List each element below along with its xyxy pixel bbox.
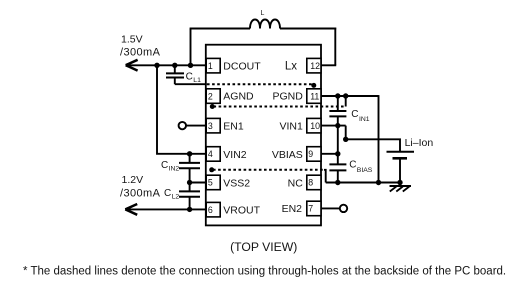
svg-text:BIAS: BIAS [357,167,373,174]
pin label EN2 [282,203,303,215]
svg-text:VIN2: VIN2 [223,149,247,161]
pin label NC [288,177,304,189]
inductor label L [261,10,265,17]
pin label Lx [285,60,297,72]
capacitor label CL2 [164,188,179,201]
node junction CL1 on 1.5V wire [172,63,177,68]
svg-text:PGND: PGND [272,90,303,102]
svg-text:C: C [349,160,356,171]
dashed line VSS2 (through-hole connection to power ground) [213,169,324,171]
svg-text:11: 11 [310,91,319,101]
pin label EN1 [223,120,244,132]
node junction caps on VSS2 wire [187,180,192,185]
capacitor CL2 [179,183,200,210]
svg-text:1.2V: 1.2V [122,174,144,186]
svg-text:NC: NC [288,177,304,189]
wire EN2 [321,207,340,209]
svg-text:10: 10 [310,121,320,131]
capacitor label CIN2 [161,160,179,173]
svg-text:Li–Ion: Li–Ion [405,137,434,149]
svg-text:L1: L1 [193,77,201,84]
pin label PGND [272,90,303,102]
svg-text:AGND: AGND [223,91,254,103]
svg-text:4: 4 [208,149,213,159]
svg-text:1.5V: 1.5V [121,34,143,46]
pin label DCOUT [223,61,261,73]
capacitor label CL1 [186,72,201,85]
node junction battery minus on ground rail [397,180,402,185]
svg-text:* The dashed lines denote the: * The dashed lines denote the connection… [23,265,506,277]
wire DCOUT output 1.5V [126,64,206,66]
wire top horizontal right segment [280,28,336,30]
svg-text:C: C [161,160,168,171]
pin 6 box [206,202,220,217]
label 1.5V [121,34,143,46]
pin 9 box [307,147,321,162]
ground symbol [390,183,412,192]
label 1.2V [122,174,144,186]
wire vertical from dashed end up to PGND wire [345,96,347,107]
pin label AGND [223,91,254,103]
pin label VIN2 [223,149,247,161]
wire battery feed to Li-Ion plus [346,139,400,151]
dashed line AGND top (through-hole connection to PGND) [207,83,313,85]
svg-text:12: 12 [310,61,320,71]
battery label Li-Ion [405,137,434,149]
pin 5 box [206,175,220,190]
node junction battery feed [343,137,348,142]
svg-text:DCOUT: DCOUT [223,61,261,73]
wire top loop right vertical (inductor to Lx) [334,28,336,66]
wire VROUT output 1.2V [125,208,206,210]
pin label VIN1 [279,120,303,132]
label (TOP VIEW) [230,240,297,254]
wire top horizontal left segment [190,28,250,30]
wire right rail PGND down to ground [378,95,380,182]
svg-text:2: 2 [208,91,213,101]
svg-text:/300mA: /300mA [120,46,161,58]
output arrow 1.2V [125,204,137,215]
node junction VBIAS wire [335,151,340,156]
node dot below pin 5 VSS2 [209,167,214,172]
capacitor CIN1 [329,96,346,126]
dashed line AGND bottom (through-hole connection to PGND net) [214,106,346,108]
pin 10 box [307,118,321,132]
pin 1 box [206,58,220,73]
capacitor label CBIAS [349,160,373,175]
pin 12 box [307,58,321,73]
svg-text:VROUT: VROUT [223,204,260,216]
svg-text:C: C [186,72,193,83]
pin label VBIAS [272,149,303,161]
wire VIN1 to VBIAS vertical [337,126,339,154]
wire VIN1 pin 10 [321,125,346,127]
wire VIN1 jog down to battery feed [345,126,347,140]
pin 2 box [206,89,220,104]
svg-text:VIN1: VIN1 [279,120,303,132]
svg-text:EN1: EN1 [223,120,244,132]
pin label VROUT [223,204,260,216]
wire left rail DCOUT to VIN2 [157,65,206,154]
wire CL1 ground to IC left edge [175,83,207,85]
svg-text:IN2: IN2 [169,165,180,172]
node junction CIN2 on VIN2 wire [187,151,192,156]
battery BT1 Li-Ion [387,152,415,183]
capacitor CL1 [166,65,184,84]
node junction CIN1 bottom on VIN1 wire [335,123,340,128]
capacitor CBIAS [329,154,346,183]
svg-text:Lx: Lx [285,60,297,72]
svg-text:3: 3 [208,121,213,131]
svg-text:1: 1 [208,61,213,71]
svg-text:8: 8 [308,178,313,188]
node junction dashed vertical [343,93,348,98]
node junction left rail on 1.5V wire [154,63,159,68]
node junction CBIAS on ground rail [335,180,340,185]
svg-text:C: C [164,188,171,199]
footnote about dashed lines [23,265,506,277]
svg-text:L: L [261,10,265,17]
wire ground rail bottom [326,182,400,184]
svg-text:L2: L2 [172,194,180,201]
wire elbow dashed end down to ground rail [324,170,326,183]
node junction inductor loop on 1.5V wire [188,63,193,68]
svg-text:7: 7 [308,204,313,214]
svg-text:C: C [351,109,358,120]
pin 8 box [307,175,321,190]
label /300mA (channel 1) [120,46,161,58]
terminal circle EN2 [340,205,347,212]
output arrow 1.5V [126,60,138,71]
pin 4 box [206,147,220,162]
svg-text:5: 5 [208,178,213,188]
node junction right rail on ground rail [376,180,381,185]
wire top loop left vertical (DCOUT to inductor) [190,29,192,66]
node junction CL2 on VROUT wire [187,207,192,212]
svg-text:IN1: IN1 [359,116,370,123]
svg-text:(TOP VIEW): (TOP VIEW) [230,240,297,254]
node dot at PGND end of top dashed line [311,83,316,88]
node junction CIN1 top [335,93,340,98]
terminal circle EN1 [179,122,186,129]
svg-text:9: 9 [308,149,313,159]
capacitor CIN2 [179,154,200,183]
node dot below pin 2 AGND [210,104,215,109]
svg-text:EN2: EN2 [282,203,303,215]
wire EN1 [186,125,206,127]
pin 7 box [307,201,321,216]
ic U1 body [206,45,321,226]
svg-text:VBIAS: VBIAS [272,149,303,161]
pin 11 box [307,89,321,104]
wire VBIAS pin 9 [321,153,338,155]
svg-text:VSS2: VSS2 [223,177,250,189]
label /300mA (channel 2) [120,187,161,199]
pin 3 box [206,118,220,132]
capacitor label CIN1 [351,109,369,123]
svg-text:6: 6 [208,205,213,215]
pin label VSS2 [223,177,250,189]
wire PGND pin 11 to right rail [321,95,379,97]
wire pin 12 Lx to right vertical [321,64,337,66]
inductor L [250,20,280,29]
svg-text:/300mA: /300mA [120,187,161,199]
wire VSS2 pin 5 [190,182,206,184]
